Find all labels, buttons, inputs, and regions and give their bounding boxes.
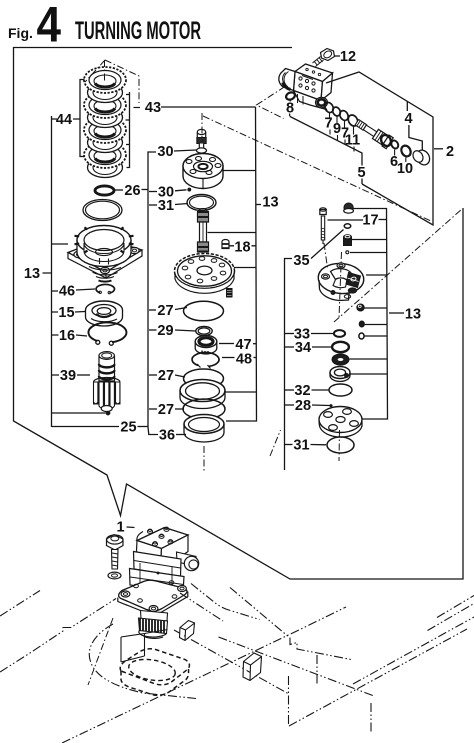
washer part 8 with label — [285, 91, 296, 101]
ring 33 with label — [334, 330, 345, 337]
ring 36 — [184, 415, 224, 443]
svg-text:7: 7 — [324, 115, 332, 131]
svg-text:36: 36 — [159, 427, 175, 443]
svg-text:Fig.: Fig. — [8, 25, 33, 41]
deck bracket wedge left — [180, 621, 195, 641]
17 box outline — [352, 209, 388, 420]
centerline below 36 — [203, 446, 205, 473]
pin right column — [346, 251, 349, 254]
machine frame phantom lines left — [0, 599, 116, 673]
long alignment dash-dot right side — [334, 209, 462, 322]
O-ring 27c — [183, 399, 225, 419]
alignment vee at middle box corner — [257, 87, 286, 119]
bushing right column — [330, 367, 350, 382]
black O-ring right column — [332, 354, 349, 365]
small oval ring below housing — [357, 304, 364, 311]
svg-text:30: 30 — [157, 144, 173, 160]
O-ring 31 right with label — [327, 437, 354, 453]
svg-text:1: 1 — [116, 519, 124, 535]
machine frame phantom long diagonal lower left — [62, 607, 346, 743]
brake piston housing — [317, 262, 365, 301]
snap ring part 16 — [88, 322, 126, 345]
spring below rotor — [227, 288, 233, 298]
svg-text:27: 27 — [158, 402, 174, 418]
O-ring 27a — [184, 301, 224, 321]
end plug part 2 — [411, 148, 432, 168]
cap screw part 30 top — [197, 129, 207, 153]
snap ring part 46 — [96, 284, 114, 293]
svg-text:TURNING MOTOR: TURNING MOTOR — [75, 17, 201, 45]
svg-text:46: 46 — [59, 283, 75, 299]
small ring D — [359, 333, 364, 339]
disc stack right bracket — [126, 92, 130, 168]
bolt part 35 — [320, 208, 326, 244]
svg-text:31: 31 — [293, 437, 309, 453]
leader with dot to pinion tip — [52, 412, 106, 414]
cap nut part — [344, 203, 354, 213]
black plug right column — [344, 235, 352, 246]
deck cutout corner curve — [89, 624, 196, 699]
seal ring with bore — [180, 380, 225, 409]
O-ring 31 middle — [187, 195, 216, 211]
machine frame phantom diagonals behind motor — [180, 593, 223, 621]
svg-text:27: 27 — [157, 303, 173, 319]
O-ring 27b — [184, 369, 224, 388]
frame recess solid walls — [121, 630, 168, 663]
large O-ring left column — [83, 200, 122, 221]
svg-text:31: 31 — [158, 198, 174, 214]
valve body — [279, 64, 333, 110]
left column bracket 13 group — [43, 116, 69, 427]
svg-text:13: 13 — [262, 194, 278, 210]
svg-text:32: 32 — [294, 383, 310, 399]
machine frame phantom verticals — [288, 676, 290, 726]
svg-text:11: 11 — [345, 132, 360, 148]
spring seat 6 with label — [390, 139, 400, 149]
seal rings 7 9 7 11 with stems and labels — [323, 101, 360, 152]
svg-text:5: 5 — [357, 165, 365, 181]
right box part ticks — [350, 240, 388, 375]
svg-text:39: 39 — [60, 368, 76, 384]
pinion shaft part 39 — [94, 352, 121, 412]
svg-text:25: 25 — [120, 419, 136, 435]
friction disc stack part 44 — [84, 67, 126, 178]
bearing part 15 — [86, 301, 123, 326]
label 13 middle with leader — [256, 204, 261, 206]
snap ring 48 — [192, 353, 219, 369]
turning motor assembly part 1 — [118, 527, 199, 638]
valve group outline polyline — [326, 72, 433, 225]
svg-text:28: 28 — [295, 398, 311, 414]
svg-text:29: 29 — [157, 323, 173, 339]
disc stack phantom lines — [85, 60, 105, 82]
ring 34 with label — [332, 342, 349, 352]
svg-text:2: 2 — [446, 144, 454, 160]
end plate part 28 — [319, 407, 362, 438]
middle column top centerline — [201, 113, 203, 142]
svg-text:9: 9 — [333, 121, 341, 137]
deck bracket wedge right — [243, 653, 262, 681]
black pellet — [359, 321, 364, 327]
svg-text:18: 18 — [234, 239, 250, 255]
flange housing part left column — [68, 226, 142, 282]
O-ring 10 with label — [399, 144, 412, 158]
svg-text:4: 4 — [404, 111, 412, 127]
svg-text:27: 27 — [158, 368, 174, 384]
small ring right column — [344, 224, 351, 228]
mounting pad hatched outline — [120, 649, 189, 696]
cylinder block rotor — [175, 254, 235, 294]
mounting bolt lower left — [107, 535, 124, 579]
svg-text:13: 13 — [405, 306, 421, 322]
long alignment dash-dot line middle to valve — [203, 116, 431, 221]
machine frame phantom diagonals right — [289, 629, 467, 726]
svg-text:4: 4 — [37, 0, 62, 53]
svg-text:16: 16 — [59, 328, 75, 344]
svg-text:34: 34 — [295, 340, 311, 356]
svg-text:43: 43 — [145, 100, 161, 116]
ring 32 with label — [329, 384, 352, 396]
drive shaft — [197, 209, 209, 253]
svg-text:15: 15 — [58, 305, 74, 321]
disc stack left bracket — [73, 80, 85, 157]
main enclosure border polyline — [14, 48, 464, 580]
svg-text:26: 26 — [124, 183, 140, 199]
bushing 47 — [195, 336, 217, 355]
svg-text:17: 17 — [362, 212, 378, 228]
plug screw part 18 — [222, 240, 229, 249]
middle sub-assembly box part 13 — [226, 107, 257, 421]
svg-text:12: 12 — [340, 49, 356, 65]
svg-text:10: 10 — [397, 161, 413, 177]
svg-text:35: 35 — [293, 253, 309, 269]
svg-text:48: 48 — [236, 351, 252, 367]
cover plate part 30 group — [183, 154, 223, 189]
middle box part ticks — [208, 171, 257, 393]
right column bracket — [285, 259, 293, 471]
svg-text:13: 13 — [24, 266, 40, 282]
svg-text:44: 44 — [56, 112, 72, 128]
bolt part 12 — [313, 49, 335, 67]
spool part 4 — [353, 117, 393, 149]
O-ring part 26 — [95, 186, 114, 195]
right column centerlines — [324, 243, 328, 268]
ring 29 — [196, 326, 212, 335]
